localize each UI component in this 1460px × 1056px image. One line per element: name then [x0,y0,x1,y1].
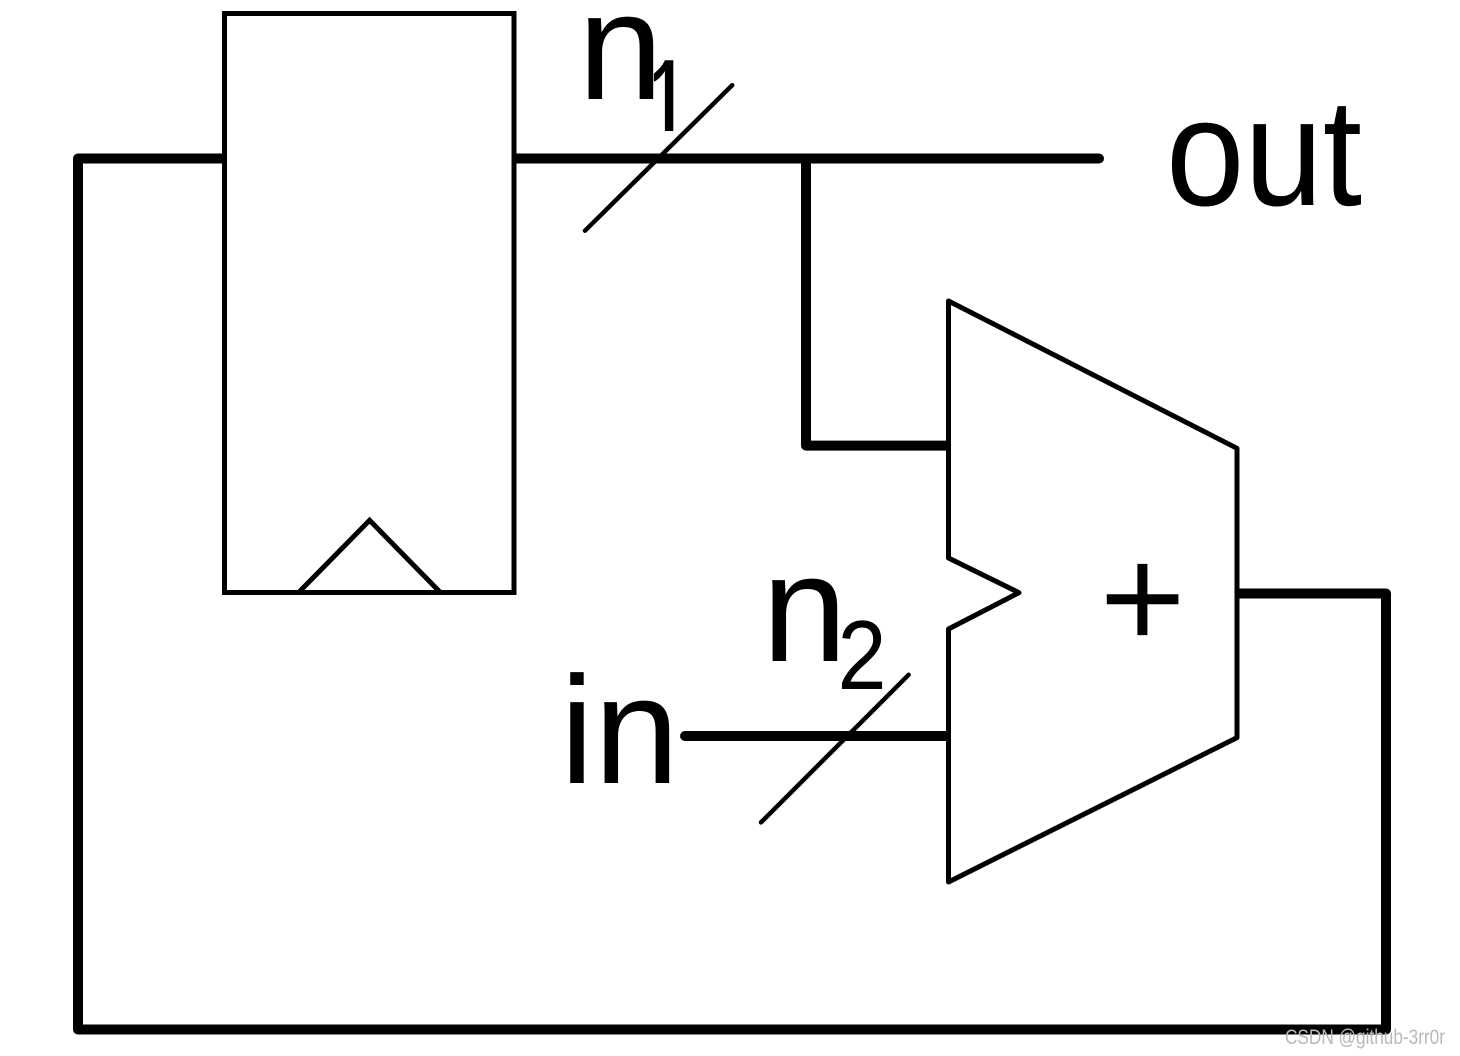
svg-text:n: n [578,0,663,132]
svg-text:out: out [1166,67,1362,238]
svg-text:n: n [762,523,847,694]
svg-text:2: 2 [838,600,887,710]
svg-text:CSDN @github-3rr0r: CSDN @github-3rr0r [1285,1026,1445,1049]
svg-text:in: in [560,645,679,816]
